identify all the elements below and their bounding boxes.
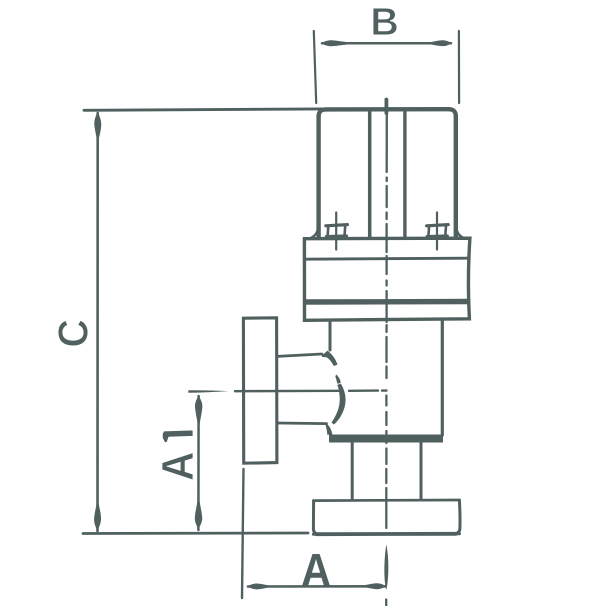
- side port top line: [278, 354, 322, 356]
- lower tube right wall: [420, 443, 423, 500]
- body bottom thick bar: [329, 435, 443, 443]
- vertical centerline: [384, 113, 388, 606]
- left flange: [243, 318, 277, 463]
- bonnet stem column right line: [403, 112, 406, 238]
- side port bottom line: [278, 422, 327, 425]
- dimension A1 line: [197, 396, 200, 530]
- valve body right wall: [441, 321, 444, 435]
- label A1: [162, 430, 193, 480]
- right mounting screw: [427, 213, 449, 250]
- label B: [373, 8, 397, 35]
- valve body left wall: [329, 321, 332, 350]
- dimension B left extension line: [314, 31, 316, 103]
- dimension A line: [248, 585, 386, 588]
- dimension A right arrowhead: [362, 583, 386, 589]
- dimension C bottom arrowhead: [94, 502, 101, 531]
- bottom extension line: [83, 532, 308, 535]
- lower tube left wall: [351, 443, 354, 500]
- bottom flange: [313, 500, 460, 534]
- elbow weld curve: [322, 351, 346, 435]
- dimension B line: [322, 42, 451, 45]
- horizontal port centerline: [188, 390, 386, 393]
- label C: [58, 319, 88, 347]
- dimension C top extension line: [84, 109, 322, 110]
- bonnet stem column left line: [368, 112, 372, 238]
- actuator bonnet outline: [319, 109, 456, 236]
- dimension A extension line: [242, 469, 244, 598]
- dimension C top arrowhead: [94, 112, 101, 140]
- dimension C line: [96, 113, 99, 531]
- dimension B right extension line: [458, 31, 460, 103]
- left mounting screw: [326, 213, 348, 250]
- flange block outline: [304, 238, 470, 320]
- dimension A left arrowhead: [248, 583, 272, 589]
- dimension A1 top arrowhead: [195, 396, 202, 426]
- flange block thick line: [305, 299, 471, 305]
- dimension A1 bottom arrowhead: [195, 499, 202, 529]
- dimension B left arrowhead: [322, 40, 353, 46]
- bonnet right bottom flare: [456, 227, 463, 238]
- flange block upper line: [305, 258, 470, 259]
- label A: [302, 554, 330, 586]
- dimension B right arrowhead: [427, 40, 452, 46]
- stem stub: [384, 100, 388, 114]
- bonnet left bottom flare: [311, 227, 318, 238]
